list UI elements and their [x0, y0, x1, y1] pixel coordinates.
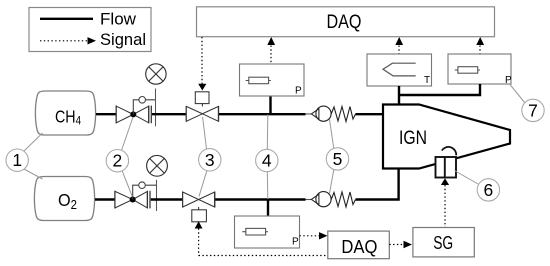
signal DAQ2 to valve V3 bottom	[195, 221, 328, 255]
signal P bottom to DAQ2	[300, 232, 328, 239]
signal SG to igniter	[441, 178, 449, 227]
SG box	[413, 228, 474, 257]
pressure transducer box P (bottom)	[235, 216, 300, 248]
leader node5 lines	[330, 120, 334, 194]
node 6	[477, 179, 499, 201]
DAQ bottom box	[328, 231, 390, 259]
valve V2 top (regulator)	[116, 97, 155, 124]
svg-text:P: P	[292, 237, 299, 248]
leader node7 line	[510, 85, 525, 104]
wire P7 to IGN	[398, 84, 480, 95]
svg-text:IGN: IGN	[399, 128, 427, 149]
signal T to DAQ	[395, 37, 403, 54]
wire valve2b to valve3b	[151, 198, 183, 200]
DAQ top box	[197, 7, 495, 37]
check valve CV1 top	[306, 106, 356, 121]
legend box	[29, 8, 151, 52]
wire junction P bottom tap	[267, 200, 269, 217]
gauge PG1 tap line	[155, 89, 157, 127]
svg-text:P: P	[295, 86, 302, 97]
leader node3 lines	[199, 117, 207, 197]
igniter (6)	[436, 147, 457, 178]
thermocouple box T	[367, 54, 432, 86]
svg-text:4: 4	[262, 151, 272, 171]
wire valve3 top to check valve top	[219, 113, 306, 115]
wire check valve top to IGN	[356, 113, 385, 115]
valve V3 top (solenoid)	[186, 92, 218, 122]
gauge PG1	[146, 64, 166, 84]
gauge PG2 tap line	[156, 180, 158, 211]
valve V2 bottom (regulator)	[115, 182, 157, 209]
svg-text:T: T	[424, 75, 430, 86]
leader node2 lines	[122, 117, 134, 197]
svg-text:Flow: Flow	[100, 10, 137, 29]
pressure transducer box P (7)	[448, 54, 512, 86]
wire T box to IGN	[398, 86, 400, 105]
signal DAQ2 to SG	[389, 241, 412, 248]
signal P7 to DAQ	[476, 37, 484, 54]
svg-text:2: 2	[113, 151, 123, 171]
leader node1 lines	[23, 133, 43, 179]
wire CH4 tank to valve2	[96, 113, 116, 115]
valve V3 bottom (solenoid)	[183, 192, 215, 222]
svg-text:DAQ: DAQ	[327, 12, 362, 33]
IGN combustor	[383, 105, 510, 169]
svg-text:6: 6	[484, 180, 494, 200]
node 2	[106, 150, 128, 172]
wire junction P4 top tap	[269, 96, 271, 114]
wire valve2 to valve3 top	[152, 113, 186, 115]
svg-text:Signal: Signal	[100, 30, 146, 49]
svg-text:1: 1	[12, 150, 22, 170]
leader node6 line	[455, 171, 479, 185]
svg-text:7: 7	[528, 100, 538, 120]
tank O2	[34, 177, 94, 221]
wire valve3b to check valve bottom	[215, 198, 305, 200]
legend flow line	[40, 10, 137, 29]
svg-text:DAQ: DAQ	[341, 236, 377, 257]
signal DAQ to valve V3 top	[198, 37, 206, 91]
svg-text:P: P	[505, 75, 512, 86]
node 4	[256, 149, 278, 171]
pressure transducer box P (4, top)	[240, 64, 305, 97]
node 7	[522, 99, 544, 121]
signal P4 to DAQ	[267, 37, 275, 64]
node 1	[6, 149, 28, 171]
svg-text:SG: SG	[433, 232, 453, 253]
gauge PG2	[147, 155, 168, 176]
legend signal line	[40, 30, 146, 49]
wire O2 tank to valve2b	[95, 198, 115, 200]
wire check valve bottom to IGN	[356, 168, 399, 200]
check valve CV2 bottom	[306, 192, 356, 207]
node 5	[326, 148, 348, 170]
svg-text:3: 3	[205, 150, 215, 170]
tank CH4	[35, 91, 95, 135]
leader node4 lines	[266, 115, 269, 200]
svg-text:5: 5	[333, 149, 343, 169]
node 3	[199, 149, 221, 171]
